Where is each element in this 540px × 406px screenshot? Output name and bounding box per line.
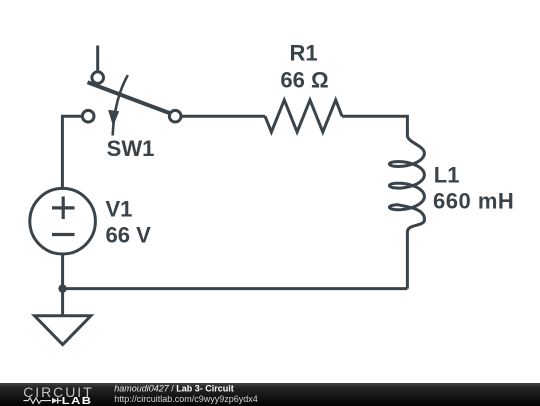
svg-text:hamoudi0427 / Lab 3- Circuit: hamoudi0427 / Lab 3- Circuit xyxy=(114,383,234,393)
svg-text:SW1: SW1 xyxy=(107,136,155,161)
footer bar xyxy=(0,383,540,406)
wire bottom rail xyxy=(63,287,408,290)
svg-text:66 Ω: 66 Ω xyxy=(280,68,328,93)
wire SW1 top stub xyxy=(96,46,99,72)
wire SW1 left terminal to V1 top xyxy=(62,116,82,187)
resistor R1 xyxy=(265,100,342,132)
wire R1 to L1 top xyxy=(342,116,407,136)
CircuitLab logo zigzag and diode xyxy=(24,397,62,403)
svg-text:LAB: LAB xyxy=(62,395,93,405)
ground xyxy=(35,289,91,345)
wire SW1 right terminal to R1 xyxy=(181,115,265,118)
svg-text:http://circuitlab.com/c9wyy9zp: http://circuitlab.com/c9wyy9zp6ydx4 xyxy=(114,393,258,403)
switch SW1 xyxy=(82,72,181,136)
svg-text:V1: V1 xyxy=(106,196,133,221)
node junction dot xyxy=(58,284,66,292)
svg-text:660 mH: 660 mH xyxy=(433,189,514,214)
wire V1 bottom xyxy=(61,254,64,289)
svg-text:R1: R1 xyxy=(289,40,317,65)
wire L1 bottom to rail xyxy=(406,231,409,289)
svg-text:66 V: 66 V xyxy=(106,222,152,247)
inductor L1 xyxy=(389,136,424,233)
svg-text:L1: L1 xyxy=(434,163,460,188)
voltage source V1 xyxy=(30,188,96,254)
